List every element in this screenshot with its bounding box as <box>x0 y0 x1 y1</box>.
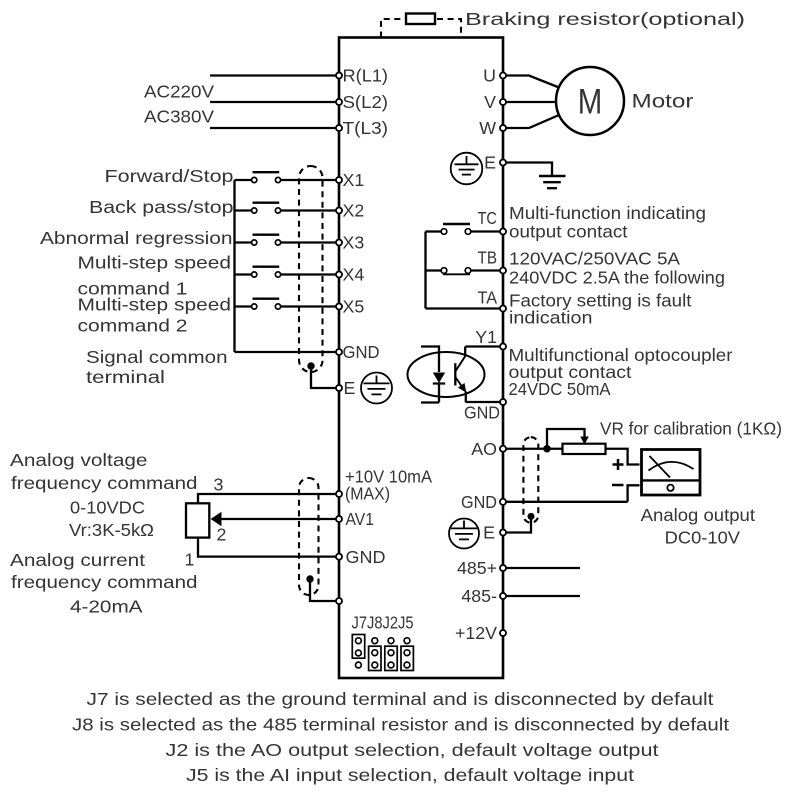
svg-text:Signal common: Signal common <box>86 347 228 367</box>
jumper J2 <box>385 638 397 671</box>
optocoupler phototransistor <box>455 347 500 403</box>
terminal V <box>484 92 506 112</box>
meter body <box>642 450 701 496</box>
label Forward/Stop <box>105 166 234 186</box>
wire 485+ <box>506 567 580 569</box>
label Signal common terminal <box>86 347 228 387</box>
svg-text:Analog output: Analog output <box>641 505 755 525</box>
label pin 1 <box>185 550 195 570</box>
terminal TB <box>478 248 507 274</box>
svg-text:Multi-function indicating: Multi-function indicating <box>509 203 706 223</box>
plus sign <box>613 459 624 470</box>
svg-text:Motor: Motor <box>632 92 695 113</box>
earth symbol (analog E) <box>449 519 479 549</box>
svg-text:GND: GND <box>464 403 500 423</box>
terminal GND (opto) <box>464 399 506 423</box>
terminal GND (analog in) <box>336 547 386 567</box>
svg-text:command 2: command 2 <box>78 316 188 336</box>
wire R(L1) input <box>210 74 336 76</box>
svg-text:X3: X3 <box>343 233 365 253</box>
wire 485- <box>506 595 580 597</box>
svg-text:X2: X2 <box>343 201 365 221</box>
switch X3 <box>235 235 336 245</box>
svg-text:indication: indication <box>509 308 593 328</box>
terminal +12V <box>455 623 506 643</box>
svg-text:frequency command: frequency command <box>11 572 198 592</box>
terminal X2 <box>336 201 364 221</box>
switch X4 <box>235 267 336 277</box>
shield junction dot <box>307 362 314 369</box>
shield dot analog in <box>306 575 313 582</box>
wire E to ground <box>506 163 552 176</box>
svg-text:M: M <box>578 83 603 122</box>
note contact rating <box>509 249 725 288</box>
svg-text:240VDC 2.5A the following: 240VDC 2.5A the following <box>509 268 725 288</box>
potentiometer VR body <box>563 444 606 454</box>
wire pot pin1 to GND <box>198 538 336 557</box>
svg-text:E: E <box>483 523 495 543</box>
terminal GND (analog out) <box>461 492 506 512</box>
label Abnormal regression <box>40 228 233 248</box>
wire U to motor <box>506 76 559 88</box>
label Back pass/stop <box>89 197 234 217</box>
label Multi-step speed command 2 <box>78 294 232 335</box>
svg-text:T(L3): T(L3) <box>343 118 389 138</box>
label AC220V <box>144 82 214 102</box>
note J7 <box>87 689 714 709</box>
svg-text:AC220V: AC220V <box>144 82 214 102</box>
braking resistor R <box>406 14 435 25</box>
wire pot pin3 to +10V <box>198 494 336 503</box>
svg-text:GND: GND <box>346 547 386 567</box>
optocoupler U1 ellipse <box>408 352 485 397</box>
svg-text:Multi-step speed: Multi-step speed <box>78 294 232 314</box>
potentiometer Vr body <box>186 503 209 537</box>
label pin 3 <box>214 475 224 495</box>
svg-text:Forward/Stop: Forward/Stop <box>105 166 234 186</box>
svg-text:E: E <box>344 378 356 398</box>
svg-text:24VDC 50mA: 24VDC 50mA <box>509 379 611 399</box>
svg-text:Analog voltage: Analog voltage <box>10 450 148 470</box>
braking resistor dashed leads <box>381 19 461 38</box>
meter lower terminal circle <box>667 485 673 491</box>
terminal AO <box>471 439 506 459</box>
relay bus <box>424 232 426 309</box>
terminal AV1 <box>336 509 374 529</box>
svg-text:485-: 485- <box>461 586 497 606</box>
wire shield to E2 <box>310 579 336 601</box>
svg-text:J7 is selected as the ground t: J7 is selected as the ground terminal an… <box>87 689 714 709</box>
wire shield AO to E <box>506 516 531 532</box>
meter scale arc and needle <box>649 456 694 478</box>
wire T(L3) input <box>210 127 336 129</box>
svg-text:3: 3 <box>214 475 224 495</box>
jumper J5 <box>401 638 413 671</box>
inverter main box <box>339 38 503 679</box>
svg-text:GND: GND <box>461 492 497 512</box>
svg-text:W: W <box>479 118 496 138</box>
svg-text:Braking resistor(optional): Braking resistor(optional) <box>465 9 745 29</box>
svg-text:U: U <box>483 66 496 86</box>
terminal X5 <box>336 297 364 317</box>
terminal R(L1) <box>336 66 388 86</box>
note analog output <box>641 505 755 548</box>
terminal X4 <box>336 265 364 285</box>
terminal S(L2) <box>336 92 388 112</box>
motor M1 circle <box>556 67 624 135</box>
terminal X3 <box>336 233 364 253</box>
terminal X1 <box>336 170 364 190</box>
svg-text:0-10VDC: 0-10VDC <box>70 498 145 518</box>
earth symbol (output E) <box>451 153 483 185</box>
terminal Y1 <box>475 327 506 350</box>
svg-text:J7J8J2J5: J7J8J2J5 <box>352 613 414 633</box>
svg-text:Multi-step speed: Multi-step speed <box>78 253 232 273</box>
shield capsule AO <box>523 437 538 523</box>
svg-text:+12V: +12V <box>455 623 497 643</box>
terminal 485+ <box>457 558 506 578</box>
wire AO to pot <box>506 448 562 450</box>
svg-text:TA: TA <box>478 288 498 308</box>
label jumpers J7 J8 J2 J5 <box>352 613 414 633</box>
svg-text:X1: X1 <box>343 170 365 190</box>
svg-text:Back pass/stop: Back pass/stop <box>89 197 234 217</box>
svg-text:output contact: output contact <box>509 222 628 242</box>
label Multi-step speed command 1 <box>78 253 232 299</box>
wiper arrowhead <box>580 437 589 445</box>
svg-text:1: 1 <box>185 550 195 570</box>
wire wiper feed <box>547 429 585 449</box>
terminal 485- <box>461 586 506 606</box>
shield capsule analog in <box>299 478 319 595</box>
terminal T(L3) <box>336 118 388 138</box>
terminal TC <box>478 208 507 235</box>
switch X1 <box>235 172 336 182</box>
terminal E (digital) <box>336 378 356 398</box>
svg-text:S(L2): S(L2) <box>343 92 389 112</box>
relay contact TC <box>426 224 500 234</box>
svg-text:TB: TB <box>478 248 498 268</box>
svg-text:R(L1): R(L1) <box>343 66 389 86</box>
svg-text:(MAX): (MAX) <box>345 484 390 504</box>
wire TA <box>426 307 500 309</box>
label Motor <box>632 92 695 113</box>
wire GND row <box>235 351 336 353</box>
label analog current command <box>10 550 198 617</box>
terminal +10V <box>336 467 432 504</box>
svg-text:Vr:3K-5kΩ: Vr:3K-5kΩ <box>69 520 154 540</box>
svg-text:Abnormal regression: Abnormal regression <box>40 228 233 248</box>
svg-text:frequency command: frequency command <box>11 473 198 493</box>
note J8 <box>72 715 729 735</box>
terminal E2 (shield) <box>336 598 342 604</box>
terminal TA <box>478 288 507 312</box>
svg-text:V: V <box>484 92 496 112</box>
note optocoupler output <box>509 345 733 399</box>
jumper J8 <box>369 638 381 671</box>
label pin 2 <box>217 525 227 545</box>
terminal U <box>483 66 506 86</box>
wire meter minus to GND <box>506 485 639 502</box>
note factory setting <box>509 291 692 328</box>
svg-text:X5: X5 <box>343 297 365 317</box>
wire V to motor <box>506 101 556 103</box>
svg-text:terminal: terminal <box>86 367 165 387</box>
minus sign <box>612 484 624 487</box>
note J2 <box>166 740 659 760</box>
svg-text:TC: TC <box>478 208 498 228</box>
label analog voltage command <box>10 450 198 540</box>
svg-text:GND: GND <box>343 342 380 362</box>
earth symbol (digital E) <box>361 373 392 404</box>
svg-text:AV1: AV1 <box>346 509 375 529</box>
svg-text:Y1: Y1 <box>475 327 497 347</box>
terminal E (analog) <box>483 523 506 543</box>
wire pot to meter plus <box>606 449 640 465</box>
shield capsule digital <box>299 166 323 372</box>
wire S(L2) input <box>210 101 336 103</box>
svg-text:J8 is selected as the 485 term: J8 is selected as the 485 terminal resis… <box>72 715 729 735</box>
svg-text:AO: AO <box>471 439 497 459</box>
svg-text:J2 is the AO output selection,: J2 is the AO output selection, default v… <box>166 740 659 760</box>
label AC380V <box>144 107 214 127</box>
jumper J7 <box>352 635 364 668</box>
svg-text:X4: X4 <box>343 265 365 285</box>
wire W to motor <box>506 115 559 128</box>
junction dot AO <box>543 445 551 453</box>
note multi-function contact <box>509 203 706 242</box>
svg-text:J5 is the AI input selection,: J5 is the AI input selection, default vo… <box>186 765 634 785</box>
svg-text:120VAC/250VAC 5A: 120VAC/250VAC 5A <box>509 249 680 269</box>
svg-text:Analog current: Analog current <box>10 550 145 570</box>
wiper arrow AV1 <box>211 512 336 527</box>
svg-text:485+: 485+ <box>457 558 497 578</box>
svg-text:AC380V: AC380V <box>144 107 214 127</box>
note VR calibration <box>600 419 782 439</box>
svg-text:2: 2 <box>217 525 227 545</box>
svg-text:4-20mA: 4-20mA <box>70 597 143 617</box>
terminal W <box>479 118 506 138</box>
switch X5 <box>235 299 336 309</box>
digital input bus <box>233 180 235 352</box>
terminal E (output side) <box>484 153 506 173</box>
ground symbol <box>539 176 566 188</box>
note J5 <box>186 765 634 785</box>
svg-text:DC0-10V: DC0-10V <box>665 528 740 548</box>
shield dot AO <box>528 513 535 520</box>
svg-text:E: E <box>484 153 496 173</box>
relay contact TB <box>426 268 500 275</box>
svg-text:VR for calibration (1KΩ): VR for calibration (1KΩ) <box>600 419 782 439</box>
braking resistor label <box>465 9 745 29</box>
wire shield to E <box>311 366 336 388</box>
switch X2 <box>235 203 336 213</box>
terminal GND (digital) <box>336 342 380 362</box>
optocoupler LED <box>421 347 445 403</box>
